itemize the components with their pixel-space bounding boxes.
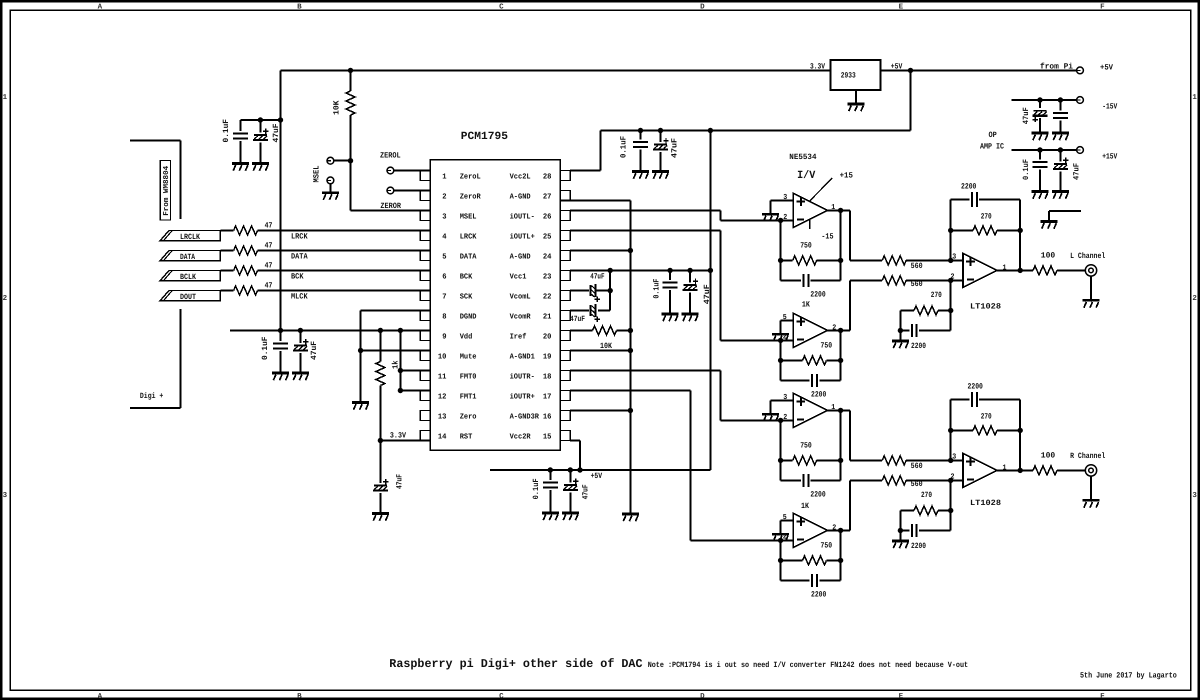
svg-text:21: 21 <box>543 312 552 321</box>
junction feedback left <box>778 558 783 563</box>
svg-text:20: 20 <box>543 332 552 341</box>
svg-text:560: 560 <box>911 280 923 289</box>
wire DGND pin 8 <box>361 310 431 312</box>
output connector L Channel <box>1085 265 1096 276</box>
ground connector L <box>1090 276 1092 300</box>
junction feedback right <box>838 258 843 263</box>
svg-text:2: 2 <box>832 523 836 532</box>
svg-text:47uF: 47uF <box>703 284 712 304</box>
resistor 750 feedback <box>781 359 803 361</box>
wire output to feedback <box>840 210 842 260</box>
junction +5V from Pi <box>908 68 913 73</box>
svg-text:1k: 1k <box>391 360 400 369</box>
From WM8804 connector bracket <box>130 140 181 142</box>
svg-text:3: 3 <box>1192 491 1197 500</box>
junction -15V 47uF <box>1037 97 1042 102</box>
svg-text:VcomL: VcomL <box>510 293 531 301</box>
capacitor 0.1uF +5V rail <box>549 470 551 480</box>
pin 22 (VcomL) <box>560 291 570 301</box>
svg-text:Mute: Mute <box>460 352 477 361</box>
svg-text:5: 5 <box>783 514 787 522</box>
svg-text:+5V: +5V <box>591 472 603 481</box>
wire output <box>827 409 850 411</box>
junction Mute/DGND <box>358 348 363 353</box>
junction output <box>838 408 843 413</box>
svg-text:10K: 10K <box>333 100 342 115</box>
capacitor 47uF Vdd <box>299 330 301 343</box>
ground op-amp + input <box>772 534 789 541</box>
wire output <box>827 529 850 531</box>
junction 0.1uF Vcc2L <box>638 128 643 133</box>
wire ZEROL to pin 1 <box>394 170 431 172</box>
IC PCM1795 body <box>430 160 560 450</box>
svg-text:3.3V: 3.3V <box>390 432 406 441</box>
junction +5V vertical top <box>708 128 713 133</box>
wire MSEL pin2 to ground <box>329 184 331 193</box>
svg-text:47uF: 47uF <box>272 123 281 142</box>
op-amp triangle (out y 330.4) <box>793 313 827 347</box>
svg-text:10: 10 <box>438 352 447 361</box>
wire DATA to PCM1795 <box>258 250 431 252</box>
pin 26 (iOUTL-) <box>560 211 570 221</box>
svg-text:MLCK: MLCK <box>291 293 308 302</box>
svg-text:17: 17 <box>543 393 552 401</box>
svg-text:270: 270 <box>921 491 932 500</box>
svg-text:2: 2 <box>3 294 8 303</box>
svg-text:from Pi: from Pi <box>1040 63 1073 72</box>
op-amp - input wire <box>781 219 794 221</box>
junction Vcc1 +5V column <box>708 268 713 273</box>
svg-text:A-GND3R: A-GND3R <box>510 412 540 421</box>
wire 3.3V rail top <box>281 69 831 71</box>
svg-text:F: F <box>1100 3 1105 11</box>
svg-text:Vcc1: Vcc1 <box>510 273 527 281</box>
capacitor 2200 feedback <box>781 479 802 481</box>
resistor 750 feedback <box>781 559 803 561</box>
svg-text:ZEROR: ZEROR <box>380 202 401 211</box>
wire A-GND pin 27 <box>560 200 630 202</box>
ground 47uF top-left <box>252 164 269 171</box>
feedback capacitor 2200 L <box>950 199 952 230</box>
svg-text:I/V: I/V <box>797 170 816 182</box>
svg-text:2: 2 <box>442 192 447 201</box>
junction MSEL <box>348 158 353 163</box>
wire LRCLK to resistor <box>220 230 233 232</box>
wire Vcc2R pin 15 <box>570 440 580 442</box>
wire Vcom cap column <box>609 270 611 310</box>
op-amp triangle (out y 410.4) <box>793 393 827 427</box>
junction 47uF tap <box>258 117 263 122</box>
svg-text:47: 47 <box>265 221 273 230</box>
svg-text:0.1uF: 0.1uF <box>532 478 541 499</box>
junction top rail / 10K <box>348 68 353 73</box>
wire MLCK to PCM1795 <box>258 290 431 292</box>
wire op I/V output link R <box>849 410 851 460</box>
wire output to feedback <box>840 410 842 460</box>
svg-text:6: 6 <box>442 272 447 281</box>
op-amp + input wire to ground <box>771 399 794 401</box>
svg-text:FMT1: FMT1 <box>460 393 477 401</box>
terminal MSEL jumper pin 2 <box>327 177 334 184</box>
svg-text:PCM1795: PCM1795 <box>461 131 509 143</box>
svg-text:2200: 2200 <box>961 183 977 192</box>
svg-text:560: 560 <box>911 462 923 471</box>
resistor 47 (LRCLK) <box>234 226 258 235</box>
svg-text:B: B <box>297 3 302 11</box>
junction Vdd 0.1uF <box>278 328 283 333</box>
capacitor 2200 compensation R <box>900 530 909 532</box>
svg-text:2200: 2200 <box>811 390 826 399</box>
resistor 47 (BCLK) <box>234 266 258 275</box>
wire iOUTR- pin 18 <box>570 370 721 372</box>
wire +15V <box>1011 149 1076 151</box>
power annotation -15 <box>809 220 811 230</box>
wire regulator output +5V <box>881 69 911 71</box>
ground DGND/Mute <box>352 403 369 410</box>
svg-text:LRCLK: LRCLK <box>180 233 200 242</box>
svg-text:750: 750 <box>821 542 833 551</box>
ground compensation R <box>899 531 901 542</box>
resistor 560 lower L <box>882 276 906 285</box>
svg-text:12: 12 <box>438 392 447 401</box>
compensation network 270/2200 L <box>950 280 952 330</box>
svg-text:8: 8 <box>442 312 447 321</box>
wire VcomL pin 22 <box>570 290 589 292</box>
power annotation +15 <box>809 178 832 202</box>
svg-text:A-GND1: A-GND1 <box>510 352 536 361</box>
pin 17 (iOUTR+) <box>560 391 570 401</box>
svg-text:47uF: 47uF <box>670 138 679 158</box>
capacitor 47uF +5V rail <box>569 470 571 483</box>
junction x280 cap tap <box>278 117 283 122</box>
svg-text:BCLK: BCLK <box>180 273 196 282</box>
op-amp - input wire <box>781 339 794 341</box>
pin 1 (ZeroL) <box>420 171 430 181</box>
junction Vdd FMT <box>398 328 403 333</box>
wire output to feedback <box>840 330 842 360</box>
LT1028 output L <box>997 269 1020 271</box>
wire stub power ground <box>1049 210 1081 212</box>
resistor 10K (MSEL pullup) <box>350 70 352 91</box>
svg-text:1K: 1K <box>802 301 810 310</box>
terminal ZEROR <box>387 187 394 194</box>
wire iOUTL- pin 26 <box>570 210 720 212</box>
svg-text:5: 5 <box>442 253 447 261</box>
wire Iref pin 20 <box>570 330 592 332</box>
svg-text:2200: 2200 <box>911 342 926 351</box>
junction 47uF +5V rail <box>568 467 573 472</box>
svg-text:-15: -15 <box>821 233 833 242</box>
wire output to feedback <box>840 530 842 560</box>
capacitor 0.1uF Vcc2L <box>640 131 642 140</box>
compensation network 270/2200 R <box>950 480 952 530</box>
wire - input to feedback <box>780 220 782 280</box>
junction output <box>838 208 843 213</box>
op-amp LT1028 R <box>963 453 997 487</box>
svg-text:5th June 2017 by Lagarto: 5th June 2017 by Lagarto <box>1080 672 1177 681</box>
svg-text:Vcc2R: Vcc2R <box>510 432 531 441</box>
wire op 1K output link R <box>841 529 851 531</box>
junction output <box>838 528 843 533</box>
resistor 750 feedback <box>781 259 793 261</box>
svg-text:100: 100 <box>1041 452 1056 461</box>
svg-text:25: 25 <box>543 232 552 241</box>
capacitor 0.1uF +15V <box>1039 150 1041 160</box>
wire +5V rail lower <box>490 469 710 471</box>
capacitor 0.1uF Vdd <box>280 330 282 341</box>
svg-text:3: 3 <box>3 491 8 500</box>
svg-text:1: 1 <box>1192 94 1197 102</box>
junction feedback left <box>778 458 783 463</box>
svg-text:47: 47 <box>265 241 273 250</box>
resistor 560 lower R <box>882 476 906 485</box>
pin 21 (VcomR) <box>560 311 570 321</box>
svg-text:DATA: DATA <box>291 253 308 262</box>
svg-text:Iref: Iref <box>510 332 527 341</box>
wire LRCK to PCM1795 <box>258 230 431 232</box>
wire output <box>827 329 850 331</box>
svg-text:E: E <box>899 3 904 11</box>
terminal -15V <box>1077 97 1084 104</box>
svg-text:0.1uF: 0.1uF <box>653 278 662 298</box>
op-amp LT1028 L <box>963 253 997 287</box>
wire A-GND1 pin 19 <box>570 350 630 352</box>
pin 14 (RST) <box>420 431 430 441</box>
wire MSEL circle to junction <box>334 160 351 162</box>
junction LT + input L <box>948 258 953 263</box>
pin 28 (Vcc2L) <box>560 171 570 181</box>
ground 47uF RST <box>372 514 389 521</box>
junction Vcc1 0.1uF <box>667 268 672 273</box>
svg-text:100: 100 <box>1041 252 1056 261</box>
input flag LRCLK <box>160 231 220 241</box>
svg-text:2200: 2200 <box>911 542 926 551</box>
svg-text:FMT0: FMT0 <box>460 372 477 381</box>
From WM8804 label box <box>160 161 170 221</box>
junction -15V 0.1uF <box>1058 97 1063 102</box>
wire A-GND vertical column <box>629 201 631 515</box>
svg-text:From WM8804: From WM8804 <box>162 165 171 215</box>
pin 2 (ZeroR) <box>420 191 430 201</box>
resistor 560 upper L <box>882 256 906 265</box>
svg-text:iOUTR-: iOUTR- <box>510 372 535 381</box>
svg-text:560: 560 <box>911 262 923 271</box>
svg-text:Raspberry pi Digi+ other side: Raspberry pi Digi+ other side of DAC <box>389 657 642 671</box>
capacitor 47uF +15V <box>1059 150 1061 162</box>
svg-text:BCK: BCK <box>460 272 473 281</box>
capacitor 47uF top-left <box>259 120 261 133</box>
wire -15V <box>1011 99 1076 101</box>
svg-text:0.1uF: 0.1uF <box>1022 159 1031 180</box>
svg-text:47uF: 47uF <box>310 341 319 360</box>
ground MSEL <box>322 193 339 200</box>
junction feedback right <box>838 458 843 463</box>
svg-text:A-GND: A-GND <box>510 192 531 201</box>
wire Vcc1 pin 23 <box>570 269 710 271</box>
svg-text:4: 4 <box>442 233 447 241</box>
junction +15V 0.1uF <box>1037 147 1042 152</box>
LT1028 output R <box>997 469 1020 471</box>
resistor 47 (DATA) <box>234 246 258 255</box>
junction +15V 47uF <box>1058 147 1063 152</box>
svg-text:A: A <box>98 693 103 700</box>
svg-text:Vcc2L: Vcc2L <box>510 172 531 181</box>
junction - input <box>778 538 783 543</box>
ground regulator 2933 <box>855 90 857 104</box>
wire RST pin 14 <box>380 440 430 442</box>
svg-text:A: A <box>98 3 103 11</box>
wire MSEL net to pin 3 <box>350 161 352 211</box>
junction FMT1 <box>398 388 403 393</box>
svg-text:750: 750 <box>800 442 812 451</box>
pin 13 (Zero) <box>420 411 430 421</box>
pin 6 (BCK) <box>420 271 430 281</box>
svg-text:iOUTL+: iOUTL+ <box>510 232 536 241</box>
svg-text:2200: 2200 <box>810 290 825 299</box>
svg-text:C: C <box>499 2 504 11</box>
svg-text:11: 11 <box>438 373 447 381</box>
svg-text:270: 270 <box>981 412 992 421</box>
junction LT - input R <box>948 478 953 483</box>
pin 19 (A-GND1) <box>560 351 570 361</box>
wire Mute pin 10 <box>361 350 431 352</box>
wire - input to feedback <box>780 540 782 580</box>
pin 24 (A-GND) <box>560 251 570 261</box>
op-amp triangle (out y 530.4) <box>793 513 827 547</box>
pin 16 (A-GND3R) <box>560 411 570 421</box>
wire vertical x280 <box>280 70 282 330</box>
op-amp + input wire to ground <box>771 199 794 201</box>
wire op I/V output link L <box>849 210 851 260</box>
feedback resistor 270 L <box>950 230 952 260</box>
svg-text:-15V: -15V <box>1102 103 1117 112</box>
svg-text:BCK: BCK <box>291 273 304 282</box>
wire DOUT to resistor <box>220 290 233 292</box>
ground compensation L <box>899 331 901 342</box>
junction feedback left <box>778 358 783 363</box>
svg-text:LT1028: LT1028 <box>970 303 1001 312</box>
svg-text:ZeroR: ZeroR <box>460 193 481 201</box>
svg-text:1: 1 <box>831 404 835 412</box>
svg-text:26: 26 <box>543 212 552 221</box>
svg-text:0.1uF: 0.1uF <box>261 336 270 360</box>
svg-text:47uF: 47uF <box>590 272 604 281</box>
svg-text:27: 27 <box>543 192 552 201</box>
pin 10 (Mute) <box>420 351 430 361</box>
wire iOUTL+ pin 25 <box>570 230 720 232</box>
pin 12 (FMT1) <box>420 391 430 401</box>
junction - input <box>778 218 783 223</box>
ground op-amp + input <box>772 334 789 341</box>
svg-text:A-GND: A-GND <box>510 252 531 261</box>
svg-text:2: 2 <box>832 323 836 332</box>
svg-text:LRCK: LRCK <box>291 233 308 242</box>
svg-text:C: C <box>499 692 504 700</box>
capacitor 47uF Vcc1 <box>689 270 691 282</box>
svg-text:2: 2 <box>1192 294 1197 303</box>
svg-text:iOUTR+: iOUTR+ <box>510 392 536 401</box>
wire A-GND pin 24 <box>570 250 630 252</box>
svg-text:28: 28 <box>543 172 552 181</box>
svg-text:47uF: 47uF <box>395 474 404 489</box>
junction LT + input R <box>948 458 953 463</box>
svg-text:LRCK: LRCK <box>460 232 477 241</box>
pin 9 (Vdd) <box>420 331 430 341</box>
capacitor 2200 compensation L <box>900 330 909 332</box>
junction VcomL cap column <box>608 268 613 273</box>
svg-text:3: 3 <box>783 393 787 402</box>
input flag DOUT <box>160 291 220 301</box>
terminal +15V <box>1077 147 1084 154</box>
capacitor 2200 feedback <box>781 579 810 581</box>
junction VcomL <box>608 288 613 293</box>
capacitor 47uF VcomR <box>591 304 596 317</box>
junction output <box>838 328 843 333</box>
svg-text:iOUTL-: iOUTL- <box>510 212 535 221</box>
svg-text:14: 14 <box>438 433 447 441</box>
svg-text:1: 1 <box>442 173 447 181</box>
capacitor 47uF Vcc2L <box>660 131 662 143</box>
wire BCK to PCM1795 <box>258 270 431 272</box>
wire Vcc2L pin 28 to +5V rail <box>570 170 600 172</box>
svg-text:47: 47 <box>265 261 273 270</box>
ground power stub <box>1040 222 1057 229</box>
svg-text:47uF: 47uF <box>582 484 591 499</box>
svg-text:LT1028: LT1028 <box>970 499 1001 508</box>
junction FMT0 <box>398 368 403 373</box>
capacitor 2200 feedback <box>781 379 810 381</box>
capacitor 0.1uF top-left <box>239 120 241 131</box>
pin 4 (LRCK) <box>420 231 430 241</box>
svg-text:DATA: DATA <box>460 253 477 261</box>
svg-text:Vdd: Vdd <box>460 332 473 341</box>
svg-text:R Channel: R Channel <box>1070 452 1105 461</box>
capacitor 0.1uF -15V <box>1059 100 1061 111</box>
svg-text:2: 2 <box>783 213 787 222</box>
svg-text:+5V: +5V <box>1100 63 1113 72</box>
svg-text:D: D <box>700 693 705 700</box>
svg-text:2933: 2933 <box>841 72 856 81</box>
svg-text:DGND: DGND <box>460 312 477 321</box>
wire Vdd pin 9 <box>230 329 430 331</box>
capacitor 47uF RST <box>379 441 381 484</box>
wire +5V down to rail <box>910 70 912 130</box>
pin 18 (iOUTR-) <box>560 371 570 381</box>
input flag BCLK <box>160 271 220 281</box>
terminal MSEL jumper pin 1 <box>327 157 334 164</box>
junction - input <box>778 418 783 423</box>
svg-text:ZeroL: ZeroL <box>460 173 481 181</box>
pin 3 (MSEL) <box>420 211 430 221</box>
svg-text:+15V: +15V <box>1102 153 1117 162</box>
svg-text:23: 23 <box>543 272 552 281</box>
wire iOUTR+ pin 17 <box>570 390 690 392</box>
junction 0.1uF +5V rail <box>548 467 553 472</box>
wire +5V to from Pi terminal <box>911 69 1077 71</box>
wire +5V rail upper <box>601 130 911 132</box>
svg-text:47uF: 47uF <box>1022 107 1031 124</box>
wire - input to feedback <box>780 340 782 380</box>
svg-text:Digi +: Digi + <box>140 392 164 401</box>
svg-text:1: 1 <box>831 204 835 212</box>
capacitor 47uF -15V <box>1039 100 1041 108</box>
svg-text:RST: RST <box>460 432 473 441</box>
svg-text:2200: 2200 <box>968 383 984 392</box>
wire A-GND3R pin 16 <box>570 410 630 412</box>
op-amp - input wire <box>781 539 794 541</box>
svg-text:7: 7 <box>442 293 447 301</box>
junction 3.3V RST node <box>378 438 383 443</box>
